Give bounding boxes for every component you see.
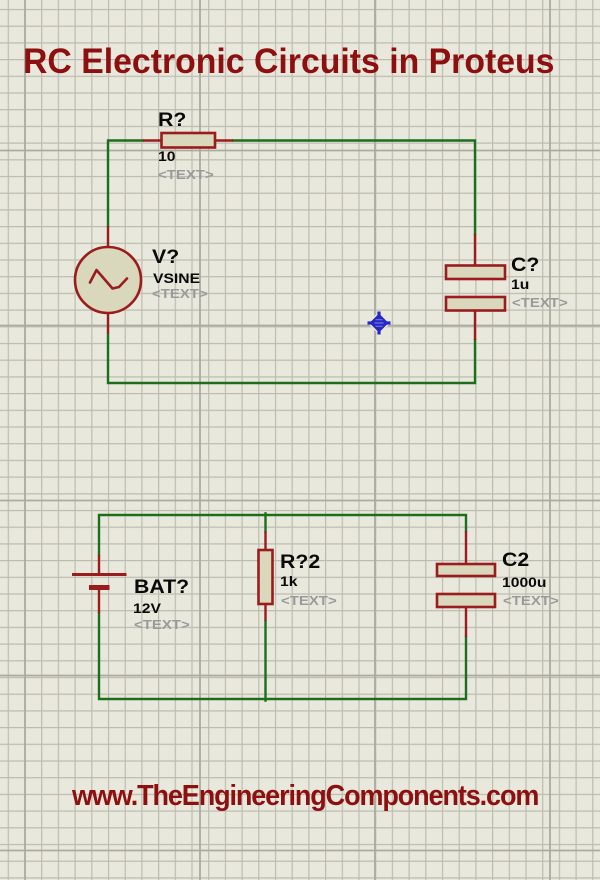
resistor R? body bbox=[162, 133, 216, 148]
VSINE V? circle body bbox=[75, 247, 141, 313]
wire: top-left corner from VSINE top to resistor R? left pin bbox=[108, 141, 144, 228]
label: source reference V? bbox=[152, 248, 179, 267]
label: resistor property &lt;TEXT&gt; bbox=[158, 168, 214, 181]
label: source property &lt;TEXT&gt; bbox=[152, 287, 208, 300]
wire: resistor R?2 bottom to bottom rail bbox=[264, 620, 266, 702]
capacitor C2 top plate bbox=[437, 564, 495, 576]
label: capacitor property &lt;TEXT&gt; bbox=[512, 296, 568, 309]
battery BAT? long plate bbox=[72, 573, 127, 576]
title text bbox=[23, 44, 554, 80]
label: resistor value 10 bbox=[158, 149, 175, 163]
wire: battery top to top rail to resistor R?2 and capacitor C2 bbox=[99, 515, 466, 556]
label: resistor value 1k bbox=[280, 574, 297, 588]
capacitor C? bottom plate bbox=[446, 297, 505, 311]
VSINE V? pins (red) bbox=[107, 226, 109, 334]
wire: capacitor C? bottom to bottom-right corner, bottom wire, up to VSINE bottom bbox=[108, 333, 475, 384]
label: resistor reference R?2 bbox=[280, 553, 320, 572]
capacitor C2 bottom plate bbox=[437, 594, 495, 607]
resistor R? pins (red) bbox=[143, 139, 233, 141]
VSINE sine-wave symbol bbox=[90, 270, 127, 289]
wire: battery bottom to bottom rail to capacitor C2 bottom bbox=[99, 612, 466, 699]
blue origin marker cursor bbox=[368, 312, 391, 335]
label: source value VSINE bbox=[153, 271, 200, 285]
wire: middle branch from top rail down to resistor R?2 bbox=[264, 512, 266, 533]
label: resistor reference R? bbox=[158, 111, 186, 130]
capacitor C? pins (red) bbox=[474, 234, 476, 340]
capacitor C? top plate bbox=[446, 266, 505, 280]
label: capacitor reference C? bbox=[511, 256, 539, 275]
battery BAT? short plate bbox=[89, 585, 110, 590]
resistor R?2 pins (red) bbox=[264, 532, 266, 622]
label: capacitor value 1000u bbox=[502, 575, 546, 589]
label: battery property &lt;TEXT&gt; bbox=[134, 618, 190, 631]
label: capacitor property &lt;TEXT&gt; bbox=[503, 594, 559, 607]
battery BAT? pins (red) bbox=[98, 555, 100, 613]
label: resistor property &lt;TEXT&gt; bbox=[281, 594, 337, 607]
label: capacitor value 1u bbox=[511, 277, 529, 291]
footer website text bbox=[72, 782, 538, 811]
label: capacitor reference C2 bbox=[502, 551, 529, 570]
label: battery value 12V bbox=[133, 601, 161, 615]
capacitor C2 pins (red) bbox=[465, 531, 467, 637]
resistor R?2 body bbox=[259, 550, 273, 604]
wire: resistor R? right pin to top-right corner down to capacitor C? bbox=[232, 141, 475, 236]
label: battery reference BAT? bbox=[134, 578, 189, 597]
